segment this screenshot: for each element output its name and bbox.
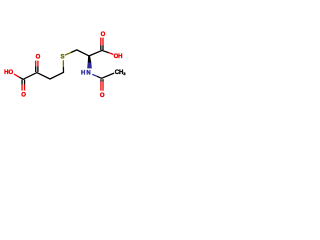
svg-text:O: O bbox=[101, 32, 106, 38]
wire bond C4-S olive half bbox=[62, 60, 64, 67]
wire bond HO-C1 red half bbox=[14, 74, 19, 77]
wire double bond C8=O4 black bottom bbox=[100, 45, 102, 50]
svg-text:O: O bbox=[36, 55, 41, 61]
wire double bond C7=O3 red bottom bbox=[100, 82, 102, 91]
wire black chain S-C5-C6-C8-OH (black portions) bbox=[71, 50, 109, 56]
wire double bond C1=O1 black top bbox=[21, 80, 23, 85]
svg-text:O: O bbox=[21, 92, 26, 98]
svg-text:S: S bbox=[60, 54, 64, 60]
wire double bond C8=O4 red top bbox=[100, 38, 102, 46]
wire bond C8-OH red half bbox=[109, 53, 114, 55]
wire black chain C1-C2-C3-C4 and C4-S stub (incl. HO-C1 black half) bbox=[19, 67, 63, 79]
svg-text:H: H bbox=[81, 70, 85, 76]
svg-text:H: H bbox=[118, 54, 122, 60]
svg-text:O: O bbox=[100, 93, 105, 99]
chemical structure: N-acetyl-S-(3-carboxy-3-oxopropyl)cysteine skeletal diagram bbox=[0, 0, 130, 130]
svg-text:O: O bbox=[8, 70, 13, 76]
wire double bond C1=O1 red bottom bbox=[21, 85, 23, 91]
wire double bond C7=O3 black top bbox=[100, 79, 102, 81]
wire bond S-C5 olive half bbox=[65, 53, 71, 56]
wire bond N-C7 blue half bbox=[92, 74, 97, 76]
wire double bond C2=O2 black bottom bbox=[35, 66, 37, 72]
svg-text:N: N bbox=[86, 70, 90, 76]
wedge bond C6-N black upper part bbox=[88, 56, 92, 63]
wire double bond C2=O2 red top bbox=[35, 61, 37, 67]
wedge bond C6-N blue lower part bbox=[87, 63, 92, 69]
wire black chain N-C7-CH3 (black portion) bbox=[97, 73, 114, 78]
